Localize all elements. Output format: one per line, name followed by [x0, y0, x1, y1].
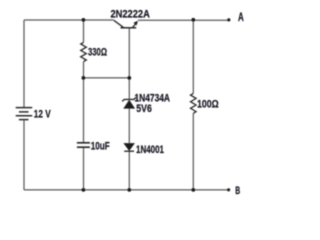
svg-text:2N2222A: 2N2222A	[111, 9, 150, 21]
svg-text:330Ω: 330Ω	[88, 47, 107, 59]
svg-text:B: B	[235, 185, 240, 197]
svg-text:100Ω: 100Ω	[197, 99, 219, 111]
svg-text:A: A	[238, 10, 244, 24]
svg-text:12 V: 12 V	[34, 108, 51, 120]
svg-text:5V6: 5V6	[136, 103, 152, 115]
svg-text:10uF: 10uF	[91, 140, 110, 152]
svg-text:1N4001: 1N4001	[136, 144, 164, 156]
